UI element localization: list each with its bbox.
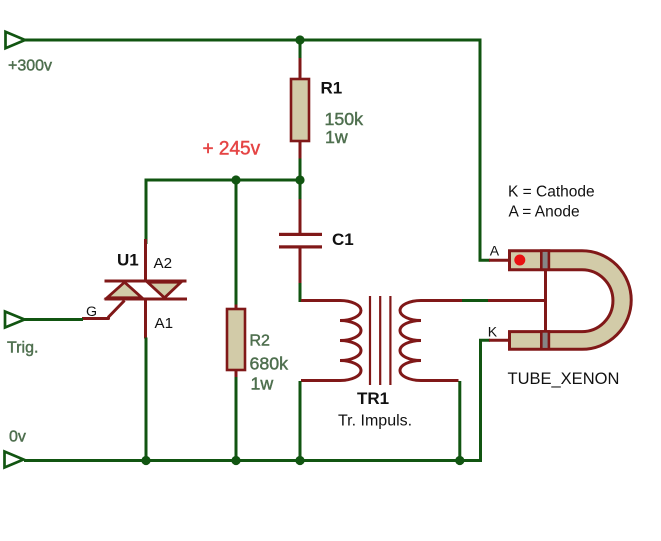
svg-text:680k: 680k (250, 354, 289, 374)
svg-text:TR1: TR1 (357, 389, 389, 408)
node junction mid rail / R1-C1 (295, 175, 304, 184)
tube cathode electrode bar (541, 331, 549, 349)
svg-text:G: G (86, 304, 97, 320)
wire +300v rail to tube anode (24, 40, 490, 260)
svg-text:+ 245v: + 245v (203, 139, 261, 160)
svg-text:A = Anode: A = Anode (509, 204, 580, 221)
wire mid rail to R2 (235, 180, 238, 306)
svg-text:K = Cathode: K = Cathode (508, 184, 595, 201)
svg-text:A2: A2 (154, 255, 173, 272)
node junction mid rail / R2 (231, 175, 240, 184)
wire C1 bottom to TR1 primary (299, 283, 302, 302)
svg-text:U1: U1 (117, 251, 139, 270)
tube indicator red dot (514, 255, 525, 266)
svg-text:1w: 1w (325, 127, 348, 147)
wire Trig terminal to gate (24, 318, 83, 321)
node junction 0v rail / triac A1 (141, 456, 150, 465)
wire R1 bottom to mid rail (299, 159, 302, 181)
pin tube cathode (489, 339, 511, 342)
svg-text:R1: R1 (321, 79, 343, 98)
node junction 0v rail / R2 (231, 456, 240, 465)
svg-text:A1: A1 (155, 315, 174, 332)
transformer TR1 core (370, 296, 390, 385)
svg-text:Tr. Impuls.: Tr. Impuls. (338, 413, 412, 430)
wire R2 bottom to 0v rail (235, 377, 238, 461)
wire TR1 primary bottom to 0v rail (299, 381, 302, 461)
pin tube anode (489, 259, 511, 262)
node junction top rail / R1 (295, 35, 304, 44)
wire TR1 secondary bottom to 0v rail (458, 381, 461, 461)
tube anode electrode bar (541, 251, 549, 270)
svg-text:Trig.: Trig. (7, 340, 38, 357)
terminal 0v (5, 452, 24, 468)
svg-text:K: K (488, 323, 498, 339)
terminal +300v (6, 32, 26, 48)
xenon tube body (510, 251, 632, 349)
terminal Trig (5, 312, 25, 328)
svg-text:+300v: +300v (8, 58, 52, 75)
svg-text:A: A (490, 243, 500, 259)
triac U1 (82, 239, 187, 339)
wire mid rail (146, 180, 300, 244)
wire 0v rail to tube cathode (24, 340, 490, 460)
svg-text:1w: 1w (251, 374, 274, 394)
resistor R1 (291, 58, 309, 160)
resistor R2 (227, 305, 245, 379)
wire triac A1 to 0v rail (145, 338, 148, 462)
tube trigger electrode line (544, 271, 547, 331)
wire mid rail to C1 (299, 180, 302, 200)
wire TR1 secondary top to tube trigger (462, 299, 489, 302)
node junction 0v rail / TR1 primary (295, 456, 304, 465)
svg-text:R2: R2 (250, 333, 271, 350)
transformer TR1 secondary winding (400, 301, 462, 381)
svg-text:TUBE_XENON: TUBE_XENON (508, 370, 620, 388)
wire top rail to R1 (299, 40, 302, 58)
transformer TR1 primary winding (301, 301, 361, 381)
capacitor C1 (279, 199, 322, 284)
svg-text:C1: C1 (332, 230, 354, 249)
pin tube trigger (488, 299, 546, 302)
node junction 0v rail / TR1 secondary (455, 456, 464, 465)
svg-text:150k: 150k (325, 109, 364, 129)
svg-text:0v: 0v (9, 429, 26, 446)
